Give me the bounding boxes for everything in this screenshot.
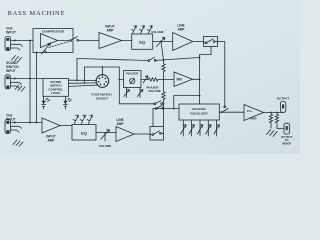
svg-text:EQ: EQ [139, 40, 145, 45]
node (socket drop) [102, 66, 104, 68]
wire fan (logic to socket pin 3) [69, 85, 97, 86]
wire line B (to phaser bus) [85, 66, 120, 68]
LED D1 [42, 96, 50, 109]
wire rail 1 [119, 103, 154, 105]
wire (volume tap down to line A) [161, 42, 164, 61]
svg-text:AMP: AMP [116, 122, 124, 126]
svg-text:AMP: AMP [177, 28, 185, 32]
compressor block [33, 29, 73, 53]
svg-text:COMPRESSOR: COMPRESSOR [42, 30, 65, 34]
jack J3 (sound switch input) [5, 75, 43, 89]
footswitch socket (DIN) [96, 75, 109, 88]
variable-gain arrow (compressor) [42, 43, 51, 54]
resistor R4 (phaser feed) [148, 78, 159, 81]
svg-text:SOCKET: SOCKET [96, 96, 109, 100]
wire (R4 to mix amp) [159, 79, 174, 81]
wire (rail1 drop to SB2) [163, 104, 165, 127]
op-amp U6 (line amp, bottom) [116, 127, 134, 142]
wire (EQ2 to line amp 2) [96, 132, 116, 134]
switch SW5 (bus to PA line) [221, 106, 228, 113]
wire (SB1 return U-link) [200, 47, 212, 55]
label LINE INPUT (bottom) [6, 114, 16, 122]
jack J4 (output) [280, 102, 285, 113]
switch SW1 (compressor bypass) [58, 37, 100, 42]
node (rail2 / loop) [173, 108, 175, 110]
wire (mix loop to rail 2) [174, 96, 200, 109]
svg-text:EQUALIZER: EQUALIZER [190, 111, 208, 115]
resistor R5 (phaser volume body) [162, 80, 165, 104]
node (V2 base) [84, 82, 86, 84]
wire (U2 to EQ1) [122, 40, 132, 42]
op-amp U1 (compressor VCA) [41, 34, 58, 48]
op-amp U7 (P.A. amp) [244, 105, 264, 121]
node (J1 wire junction) [29, 40, 31, 42]
trimmer (phaser depth) [124, 88, 129, 98]
wire (bus to phaser input) [119, 79, 123, 81]
ground (below J3) [15, 85, 25, 92]
wire riser V2 (fan to line B) [84, 67, 86, 83]
wire riser V1 (fan to line A) [76, 59, 78, 81]
label INPUT AMP (bottom) [46, 134, 56, 142]
op-amp U2 (input amp, top channel) [99, 33, 122, 49]
wire (rail2 drop to SB2) [152, 109, 154, 127]
svg-text:P.A.: P.A. [247, 109, 253, 113]
label LINE AMP (bottom) [116, 118, 124, 126]
jack J5 (output to mixer) [284, 123, 289, 134]
wire vertical from J1 node down to bottom channel [29, 41, 31, 123]
wire fan (logic to socket pin 2) [69, 82, 97, 84]
svg-text:EQ: EQ [81, 131, 87, 136]
switch box SB2 (bottom channel out) [150, 127, 164, 141]
wire (GEQ out to PA amp) [219, 111, 244, 113]
wire phaser bus (line B down to rail 1) [118, 67, 120, 104]
node (line A end) [199, 57, 201, 59]
svg-text:AMP: AMP [250, 116, 257, 120]
label P.A. AMP [247, 109, 257, 120]
node (output divider top) [270, 112, 272, 114]
node (mix out) [199, 78, 201, 80]
jack J2 (line input) [5, 120, 42, 134]
GEQ slider 1 [181, 120, 186, 136]
op-amp U4 (mix amp) [174, 72, 193, 87]
label GTR INPUT [6, 27, 16, 35]
graphic equalizer block [179, 104, 219, 120]
wire fan (logic to socket pin 1) [69, 79, 97, 81]
pot VR1 (top volume) arrow [157, 37, 165, 46]
node (mix input junction) [163, 79, 165, 81]
wire (PA out) [264, 112, 284, 114]
wire vertical from compressor bottom down [36, 53, 38, 123]
switch SW2 (effects line) [148, 57, 156, 61]
pot VR3 (bottom volume) [101, 130, 109, 142]
wire effects line A [77, 58, 200, 61]
GEQ slider 4 [206, 120, 211, 136]
phaser block [124, 71, 142, 88]
switch box SB1 (top channel out) [204, 37, 218, 47]
wire (U5 to EQ2) [60, 125, 72, 127]
resistor R1 (to ground) [269, 113, 272, 129]
LED D2 [63, 96, 71, 109]
node (V1 base) [76, 80, 78, 82]
node (phaser stub) [119, 79, 121, 81]
node (J3 line / vertical) [29, 78, 31, 80]
svg-text:AMP: AMP [106, 29, 114, 33]
svg-text:MIX: MIX [177, 78, 184, 82]
op-amp U5 (input amp, bottom) [42, 118, 60, 133]
svg-text:AMP: AMP [47, 138, 55, 142]
node (rail1 / R5 bottom) [163, 103, 165, 105]
EQ1 control arrows [131, 26, 152, 34]
label LINE AMP (top) [177, 24, 185, 32]
label PHASER VOLUME [146, 85, 160, 93]
svg-text:INPUT: INPUT [6, 31, 16, 35]
wire (phaser out) [141, 79, 148, 81]
GEQ slider 5 [214, 120, 219, 136]
ground (below J1) [12, 56, 22, 63]
wire rail 2 (to graphic EQ input) [153, 108, 179, 110]
svg-text:PHASER: PHASER [126, 72, 139, 76]
trimmer (phaser rate) [137, 88, 142, 98]
pot arrow (phaser mix) [143, 76, 148, 83]
label FOOTSWITCH SOCKET [91, 93, 111, 101]
wire (SB1 out to right bus) [218, 41, 225, 43]
EQ block (top channel) [132, 34, 153, 49]
EQ2 control arrows [73, 115, 92, 124]
wire right bus (down to mixer switch) [224, 42, 226, 106]
svg-text:MIXER: MIXER [282, 141, 291, 145]
op-amp U3 (line amp, top channel) [173, 33, 193, 51]
switch SW4 (rail 2) [155, 105, 164, 109]
svg-text:VOLUME: VOLUME [151, 30, 164, 34]
wire (U3 to switch box) [193, 41, 204, 43]
svg-text:INPUT: INPUT [6, 69, 16, 73]
svg-text:OUTPUT: OUTPUT [277, 97, 290, 101]
node (volume junction) [160, 41, 162, 43]
svg-text:VOLUME: VOLUME [148, 89, 160, 93]
wire (U6 to switch box 2) [134, 133, 150, 135]
svg-text:BASS MACHINE: BASS MACHINE [8, 10, 66, 17]
node (J2 / vertical wires) [29, 122, 31, 124]
node (loop tap) [199, 95, 201, 97]
node (bottom of compressor) [36, 52, 38, 54]
label OUTPUT TO MIXER [281, 135, 292, 146]
ground (below J2) [13, 140, 23, 147]
sound switch control logic block [43, 79, 69, 97]
label INPUT AMP (top) [105, 25, 115, 33]
node (line A / dry tap) [163, 59, 165, 61]
ground (output divider) [267, 130, 278, 137]
svg-text:LOGIC: LOGIC [51, 91, 61, 95]
GEQ slider 2 [189, 120, 194, 136]
jack J1 (guitar input) [5, 37, 33, 51]
wire (line B drop to socket top) [102, 67, 104, 75]
svg-text:VOLUME: VOLUME [99, 144, 112, 148]
switch SW3 (rail 1) [154, 101, 164, 105]
wire (EQ1 to line amp) [153, 41, 173, 43]
EQ block (bottom channel) [72, 125, 96, 141]
resistor R3 (dry feed) [162, 60, 165, 79]
wire (mix out / SB1 return drop) [193, 55, 200, 104]
dashed control line (VCA to switch) [49, 42, 69, 48]
resistor R2 (to mixer out) [275, 113, 284, 129]
label SOUND SWITCH INPUT [6, 61, 19, 73]
GEQ slider 3 [197, 120, 202, 136]
